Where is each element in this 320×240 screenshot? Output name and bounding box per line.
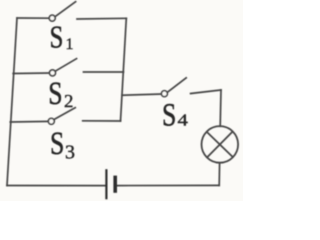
- wire middle branch right segment (from S2): [84, 71, 124, 73]
- svg-text:S: S: [48, 76, 62, 112]
- battery long plate (positive): [105, 169, 107, 199]
- label S3: [50, 126, 64, 162]
- svg-text:1: 1: [66, 36, 74, 53]
- wire top branch left segment (to S1): [17, 17, 49, 19]
- switch S1 pivot circle: [49, 15, 55, 21]
- svg-text:S: S: [50, 20, 64, 56]
- lamp L circle: [202, 126, 239, 163]
- svg-text:S: S: [162, 98, 176, 134]
- switch S2 pivot circle: [50, 70, 56, 76]
- lamp cross: [207, 131, 234, 157]
- wire right vertical of parallel bank: [121, 18, 127, 121]
- switch S1 blade: [55, 1, 76, 17]
- wire bottom right (battery right lead): [117, 184, 219, 186]
- wire lamp to bottom wire: [218, 163, 220, 185]
- switch S3 blade: [54, 107, 76, 119]
- switch S3 pivot circle: [48, 118, 54, 124]
- label S1: [50, 20, 64, 56]
- wire lower branch right segment (from S3): [83, 120, 121, 122]
- svg-text:4: 4: [178, 111, 189, 130]
- label S2: [48, 76, 62, 112]
- wire right vertical down to lamp: [219, 90, 222, 126]
- wire lower branch left segment (to S3): [10, 120, 48, 123]
- svg-text:2: 2: [64, 91, 73, 111]
- wire top branch right segment (from S1): [77, 17, 126, 20]
- svg-text:S: S: [50, 126, 64, 162]
- switch S4 pivot circle: [161, 91, 167, 97]
- wire bottom left (battery left lead): [7, 185, 105, 187]
- wire S4 to top-right corner: [191, 90, 221, 94]
- switch S2 blade: [55, 58, 77, 71]
- wire from bank node to S4: [122, 94, 162, 95]
- wire middle branch left segment (to S2): [13, 72, 49, 75]
- wire left vertical: [7, 18, 17, 186]
- svg-text:3: 3: [65, 141, 75, 163]
- switch S4 blade: [167, 77, 187, 92]
- label S4: [162, 98, 176, 134]
- battery short plate (negative): [113, 176, 117, 193]
